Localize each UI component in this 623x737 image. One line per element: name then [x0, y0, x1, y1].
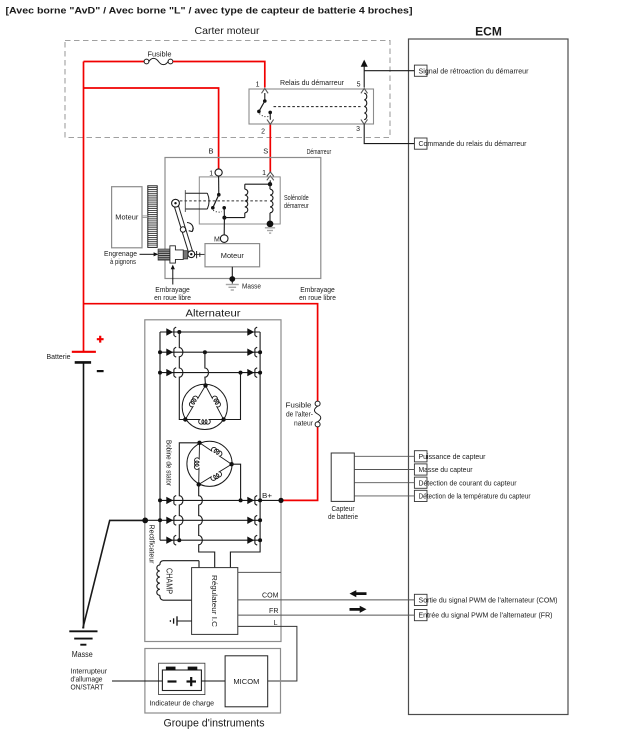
wire stator2 top vertex to row6 [179, 443, 199, 540]
lever rotation arrow [187, 223, 193, 232]
solenoid switch top dot [217, 193, 221, 197]
diode left row 2 [166, 349, 173, 356]
clutch to motor bracket [196, 251, 198, 258]
embrayage right label [299, 285, 336, 302]
pin label Commande du relais [414, 138, 527, 149]
svg-text:Groupe d'instruments: Groupe d'instruments [164, 718, 265, 730]
starter left motor box [112, 187, 142, 248]
svg-text:L: L [274, 620, 278, 627]
svg-text:[Avec borne "AvD" / Avec borne: [Avec borne "AvD" / Avec borne "L" / ave… [6, 6, 413, 17]
svg-text:3: 3 [356, 126, 360, 133]
phase row wire 4 [160, 499, 281, 501]
solenoid pull-in coil [244, 213, 246, 218]
engrenage label [104, 249, 137, 266]
relay switch to pin2 wire [269, 112, 271, 119]
regulator ground symbol [170, 616, 177, 625]
indicateur box [159, 663, 205, 694]
svg-text:Puissance de capteur: Puissance de capteur [419, 452, 486, 461]
battery minus sign [97, 370, 104, 372]
svg-text:Interrupteur: Interrupteur [71, 669, 108, 676]
svg-text:MICOM: MICOM [233, 677, 259, 686]
svg-text:2: 2 [261, 129, 265, 136]
solenoid switch dotted arc [213, 210, 222, 212]
svg-text:Moteur: Moteur [115, 213, 138, 222]
svg-text:Indicateur de charge: Indicateur de charge [149, 701, 214, 708]
svg-text:Signal de rétroaction du démar: Signal de rétroaction du démarreur [419, 66, 529, 75]
left DC bus [159, 332, 161, 540]
svg-text:Masse: Masse [72, 650, 93, 659]
motor masse dot [229, 276, 235, 282]
charge indicator battery symbol [162, 667, 201, 691]
svg-text:Batterie: Batterie [47, 352, 71, 361]
svg-text:en roue libre: en roue libre [299, 293, 336, 302]
wire battery negative down [83, 364, 85, 629]
interrupteur allumage label [71, 669, 108, 692]
solenoid pull-in coil bottom wire [224, 217, 244, 219]
diode left row 4 [166, 497, 173, 504]
svg-text:Capteur: Capteur [332, 506, 356, 513]
diode left row 3 [166, 369, 173, 376]
stator 1 circle [182, 384, 227, 429]
lever mid pivot circle [180, 227, 185, 232]
relay switch fixed contact dot [268, 111, 272, 115]
diode right row 5 [247, 517, 254, 524]
wire red top feed to fuse [84, 61, 145, 63]
alternator fuse symbol [314, 401, 320, 427]
pin label Sortie PWM COM [414, 594, 558, 605]
svg-text:5: 5 [357, 82, 361, 89]
fuse F1 Fusible symbol [144, 58, 173, 64]
lever bar [174, 204, 190, 255]
diode right row 3 [247, 369, 254, 376]
wire red relay pin2 to starter S [269, 124, 271, 172]
svg-text:Masse du capteur: Masse du capteur [419, 465, 473, 474]
diode left row 6 [166, 537, 173, 544]
FR signal wire [238, 614, 415, 616]
ECM box [409, 39, 569, 715]
pin label Entree PWM FR [414, 610, 553, 621]
svg-text:en roue libre: en roue libre [154, 293, 191, 302]
stator 1 winding top-left side [185, 386, 205, 420]
clutch dark block [183, 251, 187, 259]
solenoid switch to junction [223, 208, 225, 218]
battery negative plate [75, 361, 91, 364]
pin label Detection de la temperature [414, 490, 531, 501]
svg-text:Relais du démarreur: Relais du démarreur [280, 78, 344, 87]
relay switch contact wire [264, 93, 266, 101]
wire red alternator fuse to B+ [281, 427, 318, 501]
phase row wire 2 [160, 351, 260, 353]
diode right row 1 [247, 328, 254, 335]
solenoid switch arm dot [211, 206, 215, 210]
wire stator1 right vertex to row3 [224, 373, 241, 420]
solenoid coil top wire [245, 183, 270, 185]
relay pin 5 chevron [361, 89, 368, 94]
pin label Detection de courant [414, 477, 517, 488]
stator 1 vertex dots [203, 383, 207, 387]
solenoid label [284, 195, 309, 210]
svg-text:ON/START: ON/START [71, 685, 105, 692]
relay switch motion dotted arc [260, 114, 270, 117]
diode left row 5 [166, 517, 173, 524]
wire ground diagonal to alternator masse [83, 520, 145, 628]
svg-text:Démarreur: Démarreur [307, 147, 332, 156]
solenoid dashed axis [180, 200, 268, 202]
wire stator2 right vertex to row4 [232, 464, 241, 500]
pin label Masse du capteur [414, 464, 473, 475]
capteur wire 2 [354, 469, 414, 471]
relay pin 3 chevron [361, 120, 368, 125]
stator 1 winding bottom side [185, 420, 223, 425]
pin label Puissance de capteur [414, 451, 486, 462]
masse junction big dot [142, 518, 148, 524]
svg-text:S: S [263, 146, 268, 155]
alternator box [145, 320, 281, 642]
embrayage left arrow [172, 269, 174, 285]
solenoid hold-in coil top dot [268, 182, 272, 186]
L signal wire [238, 626, 297, 681]
starter box [165, 158, 321, 279]
svg-text:de l'alter-: de l'alter- [286, 412, 314, 419]
svg-text:COM: COM [262, 593, 279, 600]
starter terminal S chevrons [267, 172, 274, 177]
phase row wire 5 [145, 519, 260, 521]
svg-text:Sortie du signal PWM de l'alte: Sortie du signal PWM de l'alternateur (C… [419, 596, 558, 605]
relay switch arm dot [257, 110, 261, 114]
alternator fuse label [286, 403, 314, 428]
svg-text:CHAMP: CHAMP [165, 568, 174, 594]
stator 2 winding top-right side [200, 443, 232, 464]
champ coil bottom wire [163, 599, 192, 601]
champ wire to regulator top [198, 561, 200, 568]
solenoid coil ground dot [267, 221, 274, 228]
phase row wire 1 [160, 331, 260, 333]
stator 2 circle [187, 441, 232, 486]
lever bottom pivot circle [188, 251, 195, 258]
motor ground symbol [226, 279, 239, 290]
COM direction arrow [350, 590, 367, 597]
diode right row 4 [247, 497, 254, 504]
capteur wire 3 [354, 482, 414, 484]
relay pin 2 chevron [267, 120, 274, 125]
motor masse wire [231, 267, 233, 279]
lever top pivot circle [172, 199, 180, 207]
overrunning clutch white block [170, 246, 183, 263]
svg-text:de batterie: de batterie [328, 514, 358, 521]
svg-text:B+: B+ [262, 491, 273, 500]
svg-text:Alternateur: Alternateur [186, 308, 242, 320]
wire stator1 left vertex to row1 [179, 332, 185, 420]
svg-text:1: 1 [256, 82, 260, 89]
carter moteur dashed box [65, 41, 390, 138]
relay switch common dot [263, 99, 267, 103]
svg-text:ECM: ECM [475, 25, 502, 39]
svg-text:Détection de la température du: Détection de la température du capteur [419, 492, 531, 501]
svg-text:démarreur: démarreur [284, 203, 309, 210]
motor to gear link [142, 215, 148, 217]
svg-text:Commande du relais du démarreu: Commande du relais du démarreur [419, 139, 527, 148]
stator 2 winding left side [194, 443, 199, 485]
right DC bus [230, 332, 260, 568]
regulator ground stub [177, 620, 192, 622]
gear rack strip [148, 186, 157, 248]
relay coil [364, 93, 367, 119]
solenoid S to coil wire [269, 180, 271, 184]
svg-text:FR: FR [269, 608, 279, 615]
battery positive plate [72, 351, 96, 353]
starter main motor box [205, 244, 260, 267]
arrow up on pin5 wire [361, 60, 368, 67]
champ field coil [160, 561, 163, 565]
relay K1 box [249, 89, 374, 124]
pinion splined shaft [158, 249, 170, 260]
wire stator1 top vertex to row2 [205, 352, 209, 385]
diode right row 2 [247, 349, 254, 356]
diode left row 1 [166, 328, 173, 335]
stator 2 winding bottom-right side [199, 464, 232, 484]
starter terminal B circle [215, 169, 222, 176]
capteur wire 4 [354, 495, 414, 497]
relay pin 1 chevron [262, 89, 269, 94]
battery plus sign [97, 336, 104, 343]
svg-text:Entrée du signal PWM de l'alte: Entrée du signal PWM de l'alternateur (F… [419, 611, 553, 620]
capteur wire 1 [354, 455, 414, 457]
solenoid hold-in coil [269, 184, 271, 189]
COM signal wire [238, 599, 415, 601]
wire indicator to MICOM [201, 680, 225, 682]
ground symbol main Masse [69, 631, 97, 644]
svg-text:1: 1 [262, 170, 266, 177]
stator 2 vertex dots [197, 441, 201, 445]
diode right row 6 [247, 537, 254, 544]
phase row wire 6 [160, 539, 260, 541]
solenoid ground symbol [265, 228, 275, 233]
svg-text:Masse: Masse [242, 281, 261, 290]
svg-text:Solénoïde: Solénoïde [284, 195, 309, 202]
wire red fuse to relay pin1 [173, 62, 265, 88]
embrayage left label [154, 285, 191, 302]
relay switch arm [259, 101, 265, 111]
solenoid switch wire from B [218, 176, 220, 195]
solenoid junction to M terminal [223, 218, 225, 235]
starter M terminal circle [220, 235, 228, 243]
pin label Signal de retroaction [414, 65, 529, 76]
solenoid switch fixed dot [222, 206, 226, 210]
FR direction arrow [350, 606, 367, 613]
regulator pin to alternator case [238, 571, 281, 573]
svg-text:Fusible: Fusible [286, 403, 312, 410]
relay internal dashed link [274, 106, 361, 108]
solenoid plunger body [185, 193, 209, 209]
champ coil top wire [163, 560, 199, 562]
solenoid switch arm [213, 195, 219, 208]
svg-text:Carter moteur: Carter moteur [195, 25, 260, 37]
bus junction dots [158, 330, 262, 542]
svg-text:M: M [214, 237, 220, 244]
svg-text:Régulateur I.C: Régulateur I.C [210, 575, 219, 628]
stator 1 winding top-right side [206, 386, 224, 420]
wire ignition to indicator [112, 680, 162, 682]
svg-text:Rectificateur: Rectificateur [148, 525, 155, 565]
svg-text:nateur: nateur [294, 421, 314, 428]
svg-text:B: B [208, 146, 213, 155]
solenoid box [199, 177, 280, 224]
svg-text:Bobine de stator: Bobine de stator [165, 440, 172, 487]
solenoid plunger grey bar [184, 190, 186, 212]
engrenage arrow [140, 253, 155, 255]
phase row wire 3 [160, 372, 260, 374]
svg-text:à pignons: à pignons [110, 257, 136, 266]
capteur de batterie box [331, 453, 354, 501]
svg-text:Fusible: Fusible [148, 52, 172, 59]
wire stator2 bottom vertex to regulator [199, 485, 215, 568]
svg-text:Détection de courant du capteu: Détection de courant du capteur [419, 478, 517, 487]
MICOM box [225, 656, 268, 707]
wire red battery to alternator fuse [84, 304, 318, 402]
wire relay pin3 to ECM command [364, 124, 414, 143]
regulator box [192, 568, 238, 635]
groupe instruments box [145, 649, 281, 714]
B+ node dot [278, 498, 283, 503]
wire relay pin5 to ECM signal [364, 67, 414, 88]
svg-text:Moteur: Moteur [221, 251, 244, 260]
wire red branch to starter B [84, 88, 219, 169]
svg-text:d'allumage: d'allumage [71, 677, 103, 684]
capteur label [328, 506, 358, 521]
solenoid junction dot [222, 216, 226, 220]
wire red battery positive vertical [83, 62, 85, 352]
